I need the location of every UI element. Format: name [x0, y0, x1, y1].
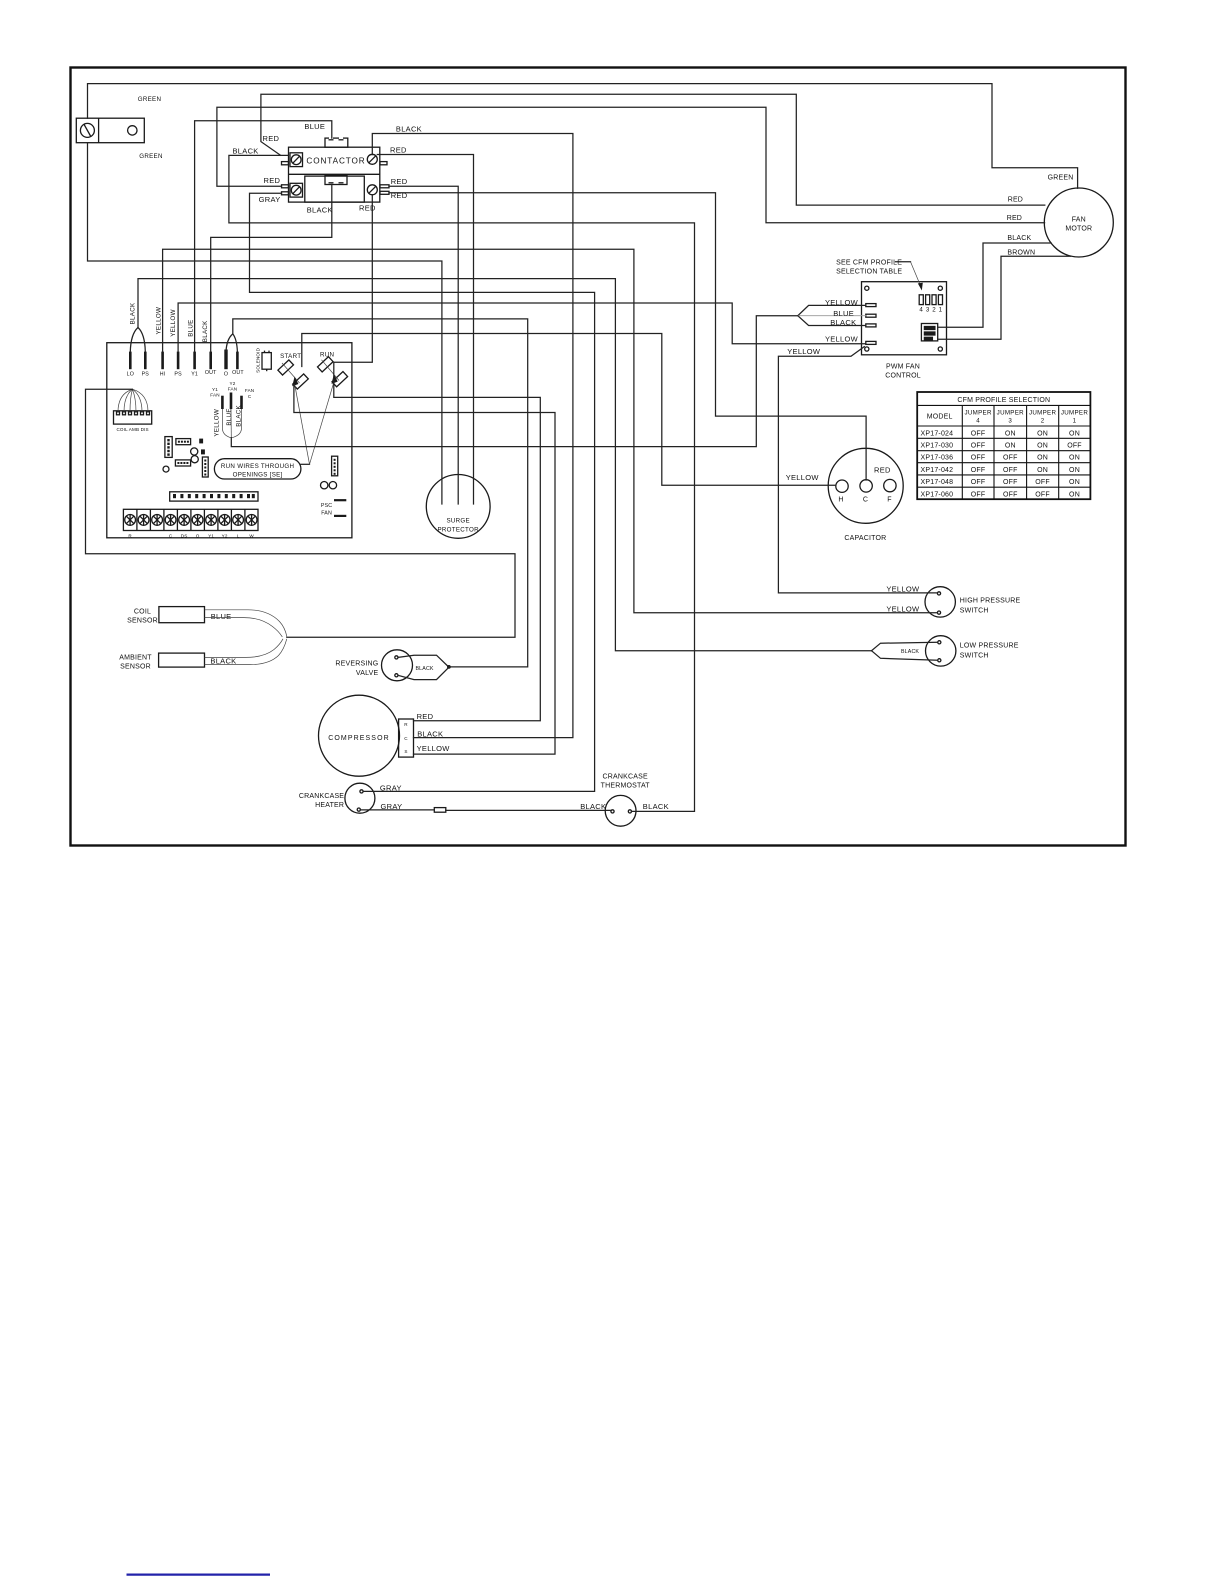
svg-text:RED: RED — [359, 203, 376, 212]
svg-text:O: O — [224, 372, 228, 378]
wire black: contactor upper-left to crankcase thermostat — [229, 155, 695, 811]
board connector J3 (horizontal) — [175, 460, 190, 466]
svg-text:C: C — [169, 534, 173, 539]
contactor body — [289, 147, 380, 202]
svg-text:SELECTION TABLE: SELECTION TABLE — [836, 268, 902, 275]
coil sensor cable — [205, 610, 287, 637]
svg-text:AMBIENT: AMBIENT — [119, 655, 152, 662]
svg-text:XP17-036: XP17-036 — [921, 455, 954, 462]
capacitor C1 — [828, 448, 903, 523]
svg-text:R: R — [404, 722, 408, 727]
PWM output connector — [921, 324, 937, 341]
svg-text:XP17-024: XP17-024 — [921, 430, 954, 437]
ground lug screw — [80, 123, 94, 137]
high pressure switch S4 — [925, 587, 955, 617]
wire black: contactor upper-right to compressor C — [372, 134, 573, 738]
svg-text:SWITCH: SWITCH — [960, 652, 989, 659]
svg-text:C: C — [404, 736, 408, 741]
svg-text:RUN WIRES THROUGH: RUN WIRES THROUGH — [221, 463, 294, 470]
svg-text:JUMPER: JUMPER — [1061, 410, 1088, 417]
svg-text:OFF: OFF — [1003, 455, 1018, 462]
svg-text:Y1: Y1 — [208, 534, 214, 539]
svg-text:SURGE: SURGE — [446, 518, 470, 525]
svg-text:SENSOR: SENSOR — [120, 664, 151, 671]
svg-text:BLACK: BLACK — [130, 302, 137, 324]
wire brown: PWM output to fan motor — [938, 256, 1071, 339]
wire black: PWM output to fan motor — [938, 243, 1051, 327]
wire yellow: board PS to PWM yellow-4 — [178, 303, 866, 352]
svg-text:VALVE: VALVE — [356, 670, 379, 677]
fan motor B1 — [1044, 188, 1113, 257]
board relay K1 (small square) — [199, 439, 203, 444]
svg-text:RED: RED — [874, 466, 891, 475]
wire black: board O-OUT to reversing valve — [226, 319, 528, 667]
svg-text:COMPRESSOR: COMPRESSOR — [328, 735, 390, 742]
svg-text:YELLOW: YELLOW — [787, 347, 821, 356]
contactor screw lower-right — [367, 185, 377, 195]
svg-text:OUT: OUT — [232, 370, 244, 376]
svg-text:START: START — [280, 353, 301, 360]
junction dot (rev valve bundle tip) — [447, 665, 451, 669]
start terminal opening — [278, 360, 308, 389]
svg-text:OPENINGS [SE]: OPENINGS [SE] — [233, 472, 283, 479]
svg-text:Y1: Y1 — [191, 372, 198, 378]
capacitor terminal F — [884, 479, 896, 491]
capacitor terminal H — [836, 480, 848, 492]
svg-text:THERMOSTAT: THERMOSTAT — [601, 783, 651, 790]
wire bundle chevron into PWM — [798, 305, 866, 325]
svg-text:RED: RED — [391, 177, 408, 186]
svg-text:RED: RED — [1008, 197, 1023, 204]
ground lug hole — [128, 126, 137, 135]
svg-text:XP17-060: XP17-060 — [921, 491, 954, 498]
solenoid connector — [262, 351, 271, 372]
svg-text:ON: ON — [1069, 479, 1080, 486]
contactor screw upper-right — [367, 154, 377, 164]
contactor terminal tabs — [282, 162, 390, 195]
svg-text:RED: RED — [1007, 215, 1022, 222]
high pressure switch labels — [960, 598, 1021, 615]
svg-text:YELLOW: YELLOW — [886, 604, 920, 613]
coil/amb/dis fan-out wires — [118, 389, 148, 412]
wire red: contactor lower-right to capacitor C — [389, 193, 866, 480]
svg-text:BLUE: BLUE — [226, 408, 233, 425]
contactor upper coil — [325, 138, 348, 147]
svg-text:CONTROL: CONTROL — [885, 373, 921, 380]
svg-text:OFF: OFF — [971, 443, 986, 450]
svg-text:R: R — [128, 534, 132, 539]
svg-text:YELLOW: YELLOW — [825, 298, 859, 307]
svg-text:GREEN: GREEN — [1048, 174, 1074, 181]
contactor screw upper-left — [290, 153, 303, 167]
svg-text:GREEN: GREEN — [138, 96, 162, 103]
CFM profile selection table — [917, 392, 1090, 499]
svg-text:W: W — [249, 534, 254, 539]
capacitor terminal labels — [838, 497, 891, 504]
svg-text:BLACK: BLACK — [233, 146, 259, 155]
svg-text:Y1: Y1 — [212, 387, 218, 392]
crankcase thermostat S40 — [605, 795, 636, 826]
svg-text:RED: RED — [263, 134, 280, 143]
svg-text:YELLOW: YELLOW — [156, 307, 163, 335]
Y2 FAN terminal — [230, 393, 233, 410]
heater splice rectangle — [434, 808, 446, 813]
svg-text:SWITCH: SWITCH — [960, 608, 989, 615]
svg-text:CONTACTOR: CONTACTOR — [306, 157, 365, 166]
svg-text:CRANKCASE: CRANKCASE — [299, 793, 344, 800]
note oval RUN WIRES THROUGH OPENINGS [SE] — [214, 459, 301, 479]
compressor B4 — [319, 695, 400, 776]
svg-text:4: 4 — [919, 307, 923, 314]
terminal strip screws — [125, 515, 257, 526]
svg-text:S: S — [404, 749, 407, 754]
svg-text:SOLENOID: SOLENOID — [256, 347, 261, 372]
svg-text:XP17-030: XP17-030 — [921, 443, 954, 450]
svg-text:OFF: OFF — [1003, 467, 1018, 474]
svg-text:OFF: OFF — [1035, 479, 1050, 486]
svg-text:FAN: FAN — [245, 388, 254, 393]
wire black: board LO-PS to low pressure switch — [130, 279, 871, 651]
svg-text:PWM FAN: PWM FAN — [886, 364, 920, 371]
crankcase heater labels — [299, 793, 344, 809]
wire red: contactor upper-right to surge protector — [377, 155, 473, 505]
wire gray: crankcase heater to thermostat — [360, 809, 611, 812]
svg-text:ON: ON — [1005, 430, 1016, 437]
board pad circle — [163, 466, 169, 472]
label Y1 FAN — [210, 387, 219, 398]
svg-text:ON: ON — [1069, 467, 1080, 474]
svg-text:YELLOW: YELLOW — [417, 744, 451, 753]
svg-text:OUT: OUT — [205, 370, 217, 376]
wire blue: board Y1 to contactor coil — [195, 121, 332, 352]
svg-text:BLUE: BLUE — [833, 309, 854, 318]
svg-text:LO: LO — [127, 372, 134, 378]
svg-text:FAN: FAN — [210, 393, 219, 398]
svg-text:JUMPER: JUMPER — [997, 410, 1024, 417]
surge protector RV1 — [426, 475, 490, 539]
svg-text:BROWN: BROWN — [1007, 250, 1035, 257]
svg-text:OFF: OFF — [971, 455, 986, 462]
board connector J4 (vertical) — [202, 457, 208, 477]
wire red: contactor lower-right to surge protector — [389, 186, 458, 504]
low pressure switch labels — [960, 642, 1019, 659]
svg-text:XP17-042: XP17-042 — [921, 467, 954, 474]
svg-text:2: 2 — [1041, 418, 1045, 425]
reversing valve solenoid L1 — [382, 650, 413, 681]
svg-text:CRANKCASE: CRANKCASE — [603, 773, 648, 780]
PWM corner holes — [865, 286, 943, 351]
svg-text:FAN: FAN — [228, 387, 237, 392]
svg-text:XP17-048: XP17-048 — [921, 479, 954, 486]
wire yellow: capacitor H through START opening — [302, 334, 836, 486]
svg-text:SEE CFM PROFILE: SEE CFM PROFILE — [836, 259, 902, 266]
svg-text:ON: ON — [1037, 467, 1048, 474]
svg-text:3: 3 — [1008, 418, 1012, 425]
board pad circles right — [321, 482, 337, 489]
FAN C terminal — [240, 396, 243, 409]
svg-text:RED: RED — [417, 712, 434, 721]
svg-text:F: F — [887, 497, 891, 504]
svg-text:GRAY: GRAY — [259, 195, 281, 204]
svg-text:C: C — [248, 394, 252, 399]
svg-text:PS: PS — [142, 372, 150, 378]
svg-text:PS: PS — [174, 372, 182, 378]
PWM fan control board A1 — [862, 282, 947, 355]
ambient sensor RT13 — [119, 653, 204, 670]
wire: ground lug to surge protector — [88, 143, 442, 504]
svg-text:Y2: Y2 — [230, 381, 236, 386]
svg-text:LOW PRESSURE: LOW PRESSURE — [960, 642, 1019, 649]
svg-text:CFM PROFILE SELECTION: CFM PROFILE SELECTION — [957, 397, 1050, 404]
svg-text:BLACK: BLACK — [643, 802, 669, 811]
svg-text:COIL: COIL — [134, 609, 151, 616]
svg-text:C: C — [863, 497, 868, 504]
svg-text:ON: ON — [1037, 455, 1048, 462]
svg-text:L: L — [237, 534, 240, 539]
svg-text:YELLOW: YELLOW — [886, 585, 920, 594]
wire bundle: board fan signals to PWM chevron — [231, 316, 798, 447]
svg-text:HIGH PRESSURE: HIGH PRESSURE — [960, 598, 1021, 605]
svg-text:YELLOW: YELLOW — [786, 473, 820, 482]
svg-text:BLACK: BLACK — [307, 206, 333, 215]
Y1 FAN terminal — [221, 396, 224, 409]
PWM input tabs — [866, 304, 876, 345]
board top terminal pins — [130, 350, 237, 370]
svg-text:GREEN: GREEN — [139, 153, 163, 160]
svg-text:OFF: OFF — [1003, 491, 1018, 498]
svg-text:RUN: RUN — [320, 352, 334, 359]
blue rule at page bottom — [127, 1573, 271, 1575]
reversing valve bundle hexagon — [398, 655, 449, 679]
note pointer lines to openings — [295, 382, 334, 464]
svg-text:JUMPER: JUMPER — [964, 410, 991, 417]
svg-text:H: H — [838, 497, 843, 504]
board connector J2 (horizontal) — [176, 439, 191, 445]
wire branch: PS pin to LO-PS bundle — [138, 328, 145, 352]
svg-text:ON: ON — [1069, 430, 1080, 437]
svg-text:PROTECTOR: PROTECTOR — [437, 527, 479, 534]
contactor screw lower-left — [290, 183, 303, 197]
label Y2 FAN — [228, 381, 237, 392]
PWM FAN CONTROL label — [885, 364, 921, 380]
psc fan jumper pads — [334, 500, 346, 516]
svg-text:ON: ON — [1069, 491, 1080, 498]
svg-text:BLACK: BLACK — [202, 320, 209, 342]
svg-text:1: 1 — [939, 307, 943, 314]
svg-text:HEATER: HEATER — [315, 802, 344, 809]
svg-text:MODEL: MODEL — [927, 414, 953, 421]
board pin header — [170, 492, 258, 501]
svg-text:Y2: Y2 — [222, 534, 228, 539]
control board A175 outline — [107, 343, 352, 538]
svg-text:MOTOR: MOTOR — [1065, 226, 1092, 233]
svg-text:ON: ON — [1037, 430, 1048, 437]
wire black: contactor lower coil to board OUT — [211, 185, 332, 352]
svg-text:PSC: PSC — [321, 503, 332, 509]
svg-text:RED: RED — [264, 176, 281, 185]
terminal strip labels — [128, 534, 254, 539]
svg-text:OFF: OFF — [971, 479, 986, 486]
board connector J5 (vertical, right) — [332, 456, 338, 476]
board pad circles — [191, 448, 199, 463]
capacitor terminal C — [860, 480, 872, 492]
svg-text:ON: ON — [1005, 443, 1016, 450]
label FAN C — [245, 388, 254, 399]
wire branch: OUT pin to O-OUT bundle — [233, 334, 238, 352]
ambient sensor cable — [205, 639, 287, 665]
svg-text:BLUE: BLUE — [304, 122, 325, 131]
svg-text:BLACK: BLACK — [830, 318, 856, 327]
coil sensor RT21 — [127, 607, 204, 625]
label PSC FAN — [321, 503, 332, 517]
board connector J1 (vertical, left) — [165, 437, 172, 458]
board terminal labels LO PS HI PS Y1 OUT O OUT — [127, 370, 245, 377]
svg-text:HI: HI — [160, 372, 166, 378]
svg-text:OFF: OFF — [1067, 443, 1082, 450]
svg-text:BLACK: BLACK — [417, 729, 443, 738]
svg-text:1: 1 — [1073, 418, 1077, 425]
svg-text:2: 2 — [932, 307, 936, 314]
wire green: ground lug to fan motor — [88, 84, 1078, 189]
svg-text:3: 3 — [926, 307, 930, 314]
wire yellow: board HI to high pressure switch bottom — [163, 249, 938, 613]
svg-text:OFF: OFF — [971, 430, 986, 437]
svg-text:BLUE: BLUE — [187, 319, 194, 336]
svg-text:ON: ON — [1069, 455, 1080, 462]
wire red: contactor coil feed to fan motor — [261, 94, 1045, 205]
svg-text:REVERSING: REVERSING — [335, 660, 378, 667]
svg-text:BLACK: BLACK — [416, 666, 434, 672]
note arrow to DIP switches — [911, 262, 923, 291]
coil/amb/dis connector — [114, 411, 152, 424]
reversing valve labels — [335, 660, 378, 677]
svg-text:FAN: FAN — [321, 511, 332, 517]
wire red: contactor lower-left to fan motor — [217, 107, 1045, 223]
svg-text:BLACK: BLACK — [901, 649, 919, 655]
svg-text:BLUE: BLUE — [211, 612, 232, 621]
crankcase heater HR1 — [345, 783, 375, 813]
diagram border frame — [71, 68, 1126, 846]
svg-text:COIL AMB DIS: COIL AMB DIS — [116, 427, 148, 432]
svg-text:RED: RED — [390, 146, 407, 155]
svg-text:YELLOW: YELLOW — [825, 334, 859, 343]
svg-text:CAPACITOR: CAPACITOR — [844, 535, 886, 542]
svg-text:OFF: OFF — [971, 491, 986, 498]
svg-text:SENSOR: SENSOR — [127, 618, 158, 625]
wire yellow: PWM to high pressure switch top — [778, 347, 937, 593]
svg-text:OFF: OFF — [971, 467, 986, 474]
svg-text:BLACK: BLACK — [396, 124, 422, 133]
svg-text:OFF: OFF — [1003, 479, 1018, 486]
wire gray: contactor lower-left to crankcase heater — [250, 193, 595, 791]
wire: board coil/amb sensor cable — [86, 389, 516, 637]
note SEE CFM PROFILE SELECTION TABLE — [836, 259, 910, 275]
lps wire bundle hexagon — [872, 642, 938, 660]
fan wires converge to bundle — [222, 409, 241, 438]
svg-text:O: O — [196, 534, 200, 539]
svg-text:OFF: OFF — [1035, 491, 1050, 498]
svg-text:YELLOW: YELLOW — [170, 309, 177, 337]
compressor terminal block — [399, 719, 414, 757]
svg-text:ON: ON — [1037, 443, 1048, 450]
thermostat terminal strip TB1 — [123, 509, 258, 530]
crankcase thermostat labels — [601, 773, 651, 789]
low pressure switch S87 — [926, 636, 956, 666]
svg-text:4: 4 — [976, 418, 980, 425]
svg-text:DS: DS — [181, 534, 188, 539]
svg-text:FAN: FAN — [1072, 217, 1086, 224]
contactor lower coil — [325, 176, 347, 185]
svg-text:BLACK: BLACK — [580, 802, 606, 811]
svg-text:JUMPER: JUMPER — [1029, 410, 1056, 417]
svg-text:BLACK: BLACK — [1007, 235, 1031, 242]
board relay K2 (small square) — [201, 449, 205, 454]
run terminal opening — [317, 357, 347, 387]
ground lug box — [76, 118, 144, 143]
wire red: contactor lower-right through RUN opening to compressor R — [334, 195, 541, 721]
wire yellow: START opening to compressor S — [294, 385, 555, 755]
svg-text:YELLOW: YELLOW — [214, 409, 221, 437]
PWM DIP jumpers 4 3 2 1 — [919, 295, 942, 314]
